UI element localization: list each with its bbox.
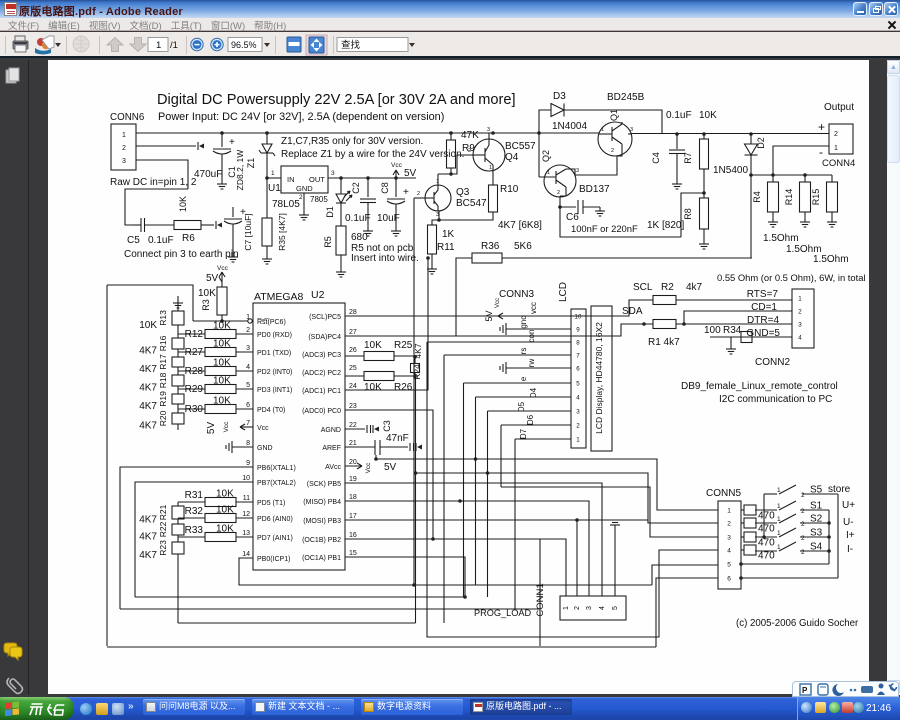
led D1 (339, 176, 343, 180)
svg-text:C5: C5 (127, 235, 140, 246)
svg-text:Z1: Z1 (246, 158, 256, 169)
svg-text:C2: C2 (351, 182, 361, 194)
svg-text:+: + (403, 187, 409, 198)
svg-text:4: 4 (599, 606, 606, 610)
svg-text:CONN6: CONN6 (110, 112, 145, 123)
svg-text:R19: R19 (158, 391, 168, 407)
svg-text:10: 10 (575, 314, 582, 321)
svg-text:1: 1 (834, 145, 838, 152)
vertical bus D5 (487, 411, 489, 597)
svg-text:R13: R13 (158, 310, 168, 326)
wire Q3 base from pwm filter (414, 197, 421, 199)
svg-text:Vcc: Vcc (391, 162, 403, 169)
wire conn5 pin5 right (741, 563, 829, 565)
svg-text:10K: 10K (198, 288, 216, 299)
svg-text:4k7: 4k7 (686, 282, 703, 293)
svg-text:PD2 (INT0): PD2 (INT0) (257, 369, 292, 376)
svg-text:2: 2 (801, 492, 805, 499)
svg-text:4K7: 4K7 (139, 346, 157, 357)
svg-text:Insert into wire.: Insert into wire. (351, 253, 419, 264)
wire Q2 base from rail (538, 133, 540, 177)
connector CONN3 box (571, 309, 586, 448)
resistor R24 4K7 vertical (413, 355, 417, 359)
svg-text:(ADC1) PC1: (ADC1) PC1 (302, 388, 341, 395)
svg-text:AVcc: AVcc (325, 464, 341, 471)
svg-text:OUT: OUT (309, 175, 325, 184)
switch right column S1-S4 (800, 509, 829, 511)
diode D3 1N4004 bypass (537, 131, 541, 135)
svg-text:CONN1: CONN1 (535, 583, 546, 616)
zener diode Z1 (265, 131, 269, 135)
bottom rail y585 (652, 565, 718, 585)
svg-text:R4: R4 (752, 191, 762, 203)
svg-text:1.5Ohm: 1.5Ohm (763, 233, 799, 244)
svg-text:2: 2 (801, 521, 805, 528)
svg-text:4K7 [6K8]: 4K7 [6K8] (498, 220, 542, 231)
switch S4 (755, 550, 777, 552)
window title bar (0, 0, 900, 18)
svg-text:2: 2 (246, 327, 250, 334)
resistor R15 (831, 175, 833, 182)
vertical bus e (463, 383, 465, 597)
capacitor C5 0.1uF (140, 218, 142, 232)
svg-text:10K: 10K (139, 320, 157, 331)
capacitor C2 0.1uF (366, 176, 370, 180)
svg-text:R1 4k7: R1 4k7 (648, 337, 680, 348)
svg-text:4K7: 4K7 (139, 421, 157, 432)
wire lcd e (464, 382, 572, 384)
resistor R1 4k7 (621, 323, 653, 325)
vertical bus D6 (500, 425, 502, 487)
svg-text:3: 3 (246, 345, 250, 352)
vertical bus adc0 (345, 410, 433, 539)
svg-text:PB7(XTAL2): PB7(XTAL2) (257, 480, 296, 487)
svg-text:R14: R14 (784, 189, 794, 206)
resistor R9 47K (449, 131, 453, 135)
LCD display box (591, 306, 612, 451)
svg-text:2: 2 (611, 148, 614, 154)
svg-text:PD4 (T0): PD4 (T0) (257, 407, 285, 414)
svg-text:1: 1 (563, 606, 570, 610)
svg-text:GND: GND (257, 445, 273, 452)
wire conn5 pin6 right (741, 577, 838, 579)
resistor R10 4K7 (492, 171, 494, 185)
svg-text:R2: R2 (661, 282, 674, 293)
svg-text:D4: D4 (529, 387, 538, 398)
svg-text:2: 2 (727, 521, 731, 528)
svg-text:LCD Display, HD44780, 16X2: LCD Display, HD44780, 16X2 (594, 322, 604, 434)
svg-text:2: 2 (801, 549, 805, 556)
svg-text:3: 3 (331, 170, 335, 177)
svg-text:3: 3 (576, 168, 579, 174)
svg-text:PD5 (T1): PD5 (T1) (257, 500, 285, 507)
resistor R26 10K (345, 375, 364, 377)
svg-text:20: 20 (349, 459, 357, 466)
resistor R4 (768, 182, 779, 212)
svg-text:CONN3: CONN3 (499, 289, 534, 300)
svg-text:Raw DC in=pin 1, 2: Raw DC in=pin 1, 2 (110, 177, 197, 188)
svg-text:4: 4 (576, 395, 580, 402)
resistor R22 4K7 vertical (172, 524, 184, 535)
svg-text:CD=1: CD=1 (751, 302, 777, 313)
svg-text:10K: 10K (178, 196, 188, 212)
svg-text:(SCL)PC5: (SCL)PC5 (309, 314, 341, 321)
svg-text:vcc: vcc (529, 302, 538, 314)
svg-text:6: 6 (576, 366, 580, 373)
resistor R5 680 (336, 226, 346, 255)
vcc 5V arrow regulator output (394, 176, 398, 180)
wire lcd rs (444, 354, 571, 356)
wire conn6 pin3 to C5 (136, 160, 188, 189)
wire conn1 p2 (576, 520, 578, 596)
svg-text:2: 2 (299, 194, 303, 201)
svg-text:1.5Ohm: 1.5Ohm (813, 254, 849, 265)
svg-text:5V: 5V (484, 310, 494, 321)
capacitor C3 47nF (345, 446, 375, 448)
svg-text:U+: U+ (842, 500, 855, 511)
svg-text:15: 15 (349, 550, 357, 557)
svg-text:4K7: 4K7 (139, 550, 157, 561)
resistor R7 (702, 132, 706, 136)
svg-text:4K7: 4K7 (139, 364, 157, 375)
svg-text:PD3 (INT1): PD3 (INT1) (257, 387, 292, 394)
svg-text:1N4004: 1N4004 (552, 121, 587, 132)
svg-text:C7 [10uF]: C7 [10uF] (243, 213, 253, 250)
wire Q2 collector to Q1 emitter (575, 156, 617, 175)
output sense rail (749, 173, 753, 177)
svg-text:100nF or 220nF: 100nF or 220nF (571, 223, 638, 234)
svg-text:PD7 (AIN1): PD7 (AIN1) (257, 535, 293, 542)
svg-text:rs: rs (519, 348, 528, 355)
svg-text:5: 5 (612, 606, 619, 610)
wire oc1b branch down (539, 539, 541, 646)
svg-text:4K7: 4K7 (139, 515, 157, 526)
capacitor C1 470uF (220, 131, 224, 135)
svg-text:BD137: BD137 (579, 184, 610, 195)
wire sck pb5 to conn1 p4 (345, 483, 602, 596)
capacitor C8 10uF polarized (395, 178, 397, 197)
svg-text:R6: R6 (182, 233, 195, 244)
wire scl from pin28 (345, 300, 653, 316)
svg-text:Connect pin 3 to earth pin: Connect pin 3 to earth pin (124, 249, 239, 260)
svg-text:47nF: 47nF (386, 433, 409, 444)
resistor 470 row 3 (741, 536, 744, 538)
wire adc1 pin24 (345, 258, 428, 390)
wire xtal1 (120, 467, 253, 609)
svg-text:19: 19 (349, 476, 357, 483)
svg-text:5V: 5V (206, 422, 217, 435)
svg-text:7: 7 (576, 353, 580, 360)
svg-text:R21: R21 (158, 504, 168, 520)
diode D2 1N5400 (749, 132, 753, 136)
svg-text:R33: R33 (185, 525, 204, 536)
svg-text:24: 24 (349, 383, 357, 390)
toolbar (0, 32, 900, 58)
svg-text:21: 21 (349, 440, 357, 447)
switch S3 (755, 536, 777, 538)
svg-text:4: 4 (798, 335, 802, 342)
vcc 5V arrow lcd (498, 315, 571, 317)
transistor Q3 BC547 (425, 185, 451, 211)
transistor Q1 BD245B (598, 122, 632, 156)
svg-text:Output: Output (824, 102, 854, 113)
wire conn1 p5 (614, 525, 616, 596)
svg-text:10K: 10K (216, 489, 234, 500)
svg-text:(ADC2) PC2: (ADC2) PC2 (302, 370, 341, 377)
svg-text:R20: R20 (158, 410, 168, 426)
svg-text:5V: 5V (384, 462, 397, 473)
wire Q4 base node (473, 154, 485, 156)
svg-text:U2: U2 (311, 289, 325, 301)
svg-text:GND: GND (296, 184, 313, 193)
vcc pin7 (240, 426, 253, 428)
resistor 470 row 2 (741, 522, 744, 524)
svg-text:BD245B: BD245B (607, 92, 645, 103)
svg-text:6: 6 (246, 402, 250, 409)
svg-text:Q1: Q1 (609, 109, 619, 121)
bottom rail y623 (178, 622, 416, 624)
svg-text:25: 25 (349, 365, 357, 372)
svg-text:(OC1A) PB1: (OC1A) PB1 (302, 555, 341, 562)
svg-text:PB6(XTAL1): PB6(XTAL1) (257, 465, 296, 472)
svg-text:Power Input: DC 24V [or 32V],: Power Input: DC 24V [or 32V], 2.5A (depe… (158, 111, 444, 123)
vertical bus D7 (514, 439, 516, 609)
resistor R27 10K horizontal (178, 351, 205, 353)
svg-text:1: 1 (798, 296, 802, 303)
svg-text:100: 100 (704, 325, 721, 336)
svg-text:3: 3 (576, 409, 580, 416)
svg-text:D1: D1 (325, 206, 335, 218)
svg-text:470: 470 (758, 538, 775, 549)
svg-text:8: 8 (246, 440, 250, 447)
vertical bus D4 (475, 397, 477, 585)
bottom rail y597 (135, 596, 465, 598)
svg-text:1K [820]: 1K [820] (647, 220, 684, 231)
svg-text:R15: R15 (811, 189, 821, 206)
svg-text:SDA: SDA (622, 306, 643, 317)
svg-text:2: 2 (576, 423, 580, 430)
wire Q3 collector to R9 (437, 174, 439, 185)
svg-text:4K7: 4K7 (139, 532, 157, 543)
svg-text:9: 9 (246, 460, 250, 467)
resistor R30 10K horizontal (178, 408, 205, 410)
resistor R25 10K (345, 355, 364, 357)
svg-text:(SDA)PC4: (SDA)PC4 (308, 334, 341, 341)
capacitor C7 10uF (232, 207, 234, 217)
svg-text:D3: D3 (553, 91, 566, 102)
wire lcd D4 (476, 396, 572, 398)
svg-text:0.1uF: 0.1uF (666, 110, 692, 121)
svg-text:1: 1 (547, 170, 550, 176)
wire oc1b pb2 to conn1 p1 (345, 539, 566, 596)
svg-text:1: 1 (122, 132, 126, 139)
svg-text:LCD: LCD (558, 282, 569, 302)
svg-text:10K: 10K (699, 110, 717, 121)
svg-text:10K: 10K (213, 321, 231, 332)
svg-text:BC557: BC557 (505, 141, 536, 152)
svg-text:R8: R8 (683, 208, 693, 220)
svg-text:7: 7 (246, 420, 250, 427)
svg-text:R34: R34 (723, 325, 742, 336)
resistor R29 10K horizontal (178, 388, 205, 390)
wire mosi pb3 (345, 520, 648, 523)
svg-text:RTS=7: RTS=7 (747, 289, 779, 300)
switch S2 (755, 522, 777, 524)
svg-text:47K: 47K (461, 130, 479, 141)
svg-text:10K: 10K (216, 524, 234, 535)
svg-text:R36: R36 (481, 241, 500, 252)
svg-text:(MISO) PB4: (MISO) PB4 (303, 499, 341, 506)
rail 473 to conn5 pin2 (416, 473, 719, 523)
svg-text:AREF: AREF (322, 445, 341, 452)
svg-text:5: 5 (246, 382, 250, 389)
svg-text:DB9_female_Linux_remote_contro: DB9_female_Linux_remote_control (681, 381, 838, 392)
svg-text:Q4: Q4 (505, 152, 519, 163)
regulator U1 78L05 (265, 176, 269, 180)
svg-text:470: 470 (758, 511, 775, 522)
svg-text:AGND: AGND (321, 427, 341, 434)
bottom rail y609 (120, 608, 540, 610)
svg-text:3: 3 (727, 535, 731, 542)
svg-text:gnd: gnd (519, 315, 528, 328)
svg-text:R5: R5 (323, 236, 333, 248)
gnd lcd pin9 (506, 328, 571, 330)
svg-text:0.55 Ohm (or 0.5 Ohm), 6W, in: 0.55 Ohm (or 0.5 Ohm), 6W, in total (717, 272, 866, 283)
svg-text:2: 2 (557, 190, 560, 196)
svg-text:(c) 2005-2006 Guido Socher: (c) 2005-2006 Guido Socher (736, 618, 859, 629)
svg-text:PD0 (RXD): PD0 (RXD) (257, 332, 292, 339)
resistor R20 4K7 vertical (172, 413, 184, 424)
gnd lcd rw (506, 367, 571, 369)
svg-text:23: 23 (349, 403, 357, 410)
resistor 470 row 1 (741, 509, 744, 511)
svg-text:(ADC0) PC0: (ADC0) PC0 (302, 408, 341, 415)
svg-text:SCL: SCL (633, 282, 653, 293)
outer left wire (106, 285, 108, 646)
vertical bus rs (443, 355, 445, 623)
svg-text:5V: 5V (206, 273, 219, 284)
resistor R8 1K (700, 198, 709, 229)
switch S5 right column (802, 493, 838, 495)
bottom rail y646 (107, 646, 656, 648)
svg-text:C8: C8 (380, 182, 390, 194)
svg-text:GND=5: GND=5 (746, 328, 780, 339)
resistor R28 10K horizontal (178, 370, 205, 372)
svg-text:(ADC3) PC3: (ADC3) PC3 (302, 352, 341, 359)
svg-text:R18: R18 (158, 372, 168, 388)
svg-text:10: 10 (242, 475, 250, 482)
svg-text:1: 1 (777, 530, 781, 537)
svg-text:-: - (819, 145, 823, 159)
resistor R18 4K7 vertical (172, 375, 184, 386)
gnd pin8 (232, 446, 253, 448)
svg-text:5: 5 (576, 381, 580, 388)
wire Q2 emitter to C6 (560, 196, 576, 207)
taskbar (0, 697, 900, 720)
svg-text:C4: C4 (651, 152, 661, 164)
svg-text:1: 1 (777, 516, 781, 523)
svg-text:P: P (802, 686, 808, 695)
svg-text:R10: R10 (500, 184, 519, 195)
svg-text:10K: 10K (213, 358, 231, 369)
svg-text:R27: R27 (185, 347, 204, 358)
svg-text:5K6: 5K6 (514, 241, 532, 252)
svg-text:R35 [4K7]: R35 [4K7] (277, 213, 287, 251)
svg-text:Vcc: Vcc (495, 298, 501, 308)
svg-text:3: 3 (487, 127, 490, 133)
svg-text:I2C communication to PC: I2C communication to PC (719, 394, 832, 405)
wire main top rail (136, 132, 599, 134)
svg-text:1: 1 (576, 437, 580, 444)
svg-text:R12: R12 (185, 329, 204, 340)
svg-text:7805: 7805 (310, 195, 328, 204)
wire lcd D5 (488, 410, 572, 412)
wire lcd con (427, 341, 571, 343)
svg-text:R22: R22 (158, 521, 168, 537)
wire conn4 pin1 (773, 146, 829, 182)
svg-text:Replace Z1 by a wire for the 2: Replace Z1 by a wire for the 24V version… (281, 149, 464, 160)
ladder ground top (177, 299, 179, 303)
svg-text:4K7: 4K7 (139, 401, 157, 412)
wire pb0 icp1 (239, 558, 652, 585)
resistor R12 10K horizontal (178, 333, 205, 335)
svg-text:CONN4: CONN4 (822, 158, 855, 169)
wire conn6 pin2 stub (136, 145, 196, 147)
switch S5 left drop (763, 494, 765, 537)
wire miso pb4 to conn1 p3 (345, 501, 589, 596)
svg-text:470: 470 (758, 551, 775, 562)
svg-text:4K7: 4K7 (139, 383, 157, 394)
svg-text:IN: IN (287, 175, 295, 184)
svg-text:27: 27 (349, 329, 357, 336)
resistor R17 4K7 vertical (172, 357, 184, 367)
vertical bus con (427, 342, 718, 637)
svg-text:ATMEGA8: ATMEGA8 (254, 291, 304, 303)
svg-text:D2: D2 (756, 137, 766, 149)
resistor 470 row 4 (741, 549, 744, 551)
rail 459 to conn5 pin1 (376, 459, 718, 510)
svg-text:18: 18 (349, 494, 357, 501)
svg-text:U-: U- (843, 517, 854, 528)
resistor R21 4K7 vertical (172, 506, 184, 519)
wire Q2 emitter feedback tap (558, 205, 562, 209)
svg-text:6: 6 (727, 576, 731, 583)
svg-text:+: + (818, 120, 825, 134)
ladder wire segments (177, 310, 179, 311)
floating mini panel (792, 681, 899, 697)
svg-text:2: 2 (417, 191, 420, 197)
svg-text:R28: R28 (185, 366, 204, 377)
resistor R19 4K7 vertical (172, 394, 184, 404)
svg-text:3: 3 (798, 322, 802, 329)
svg-text:con: con (527, 330, 536, 343)
svg-text:470uF: 470uF (194, 169, 222, 180)
svg-text:rw: rw (527, 359, 536, 368)
svg-text:1N5400: 1N5400 (713, 165, 748, 176)
svg-text:4: 4 (246, 364, 250, 371)
svg-text:10uF: 10uF (377, 213, 400, 224)
svg-text:28: 28 (349, 309, 357, 316)
svg-text:11: 11 (243, 495, 250, 502)
svg-text:U1: U1 (268, 183, 281, 194)
svg-text:ZD8.2, 1W: ZD8.2, 1W (235, 150, 245, 191)
svg-text:(MOSI) PB3: (MOSI) PB3 (303, 518, 341, 525)
transistor Q4 BC557 (473, 139, 505, 171)
svg-text:CONN5: CONN5 (706, 488, 741, 499)
svg-text:PD1 (TXD): PD1 (TXD) (257, 350, 291, 357)
svg-text:C6: C6 (566, 212, 579, 223)
svg-text:1: 1 (777, 487, 781, 494)
